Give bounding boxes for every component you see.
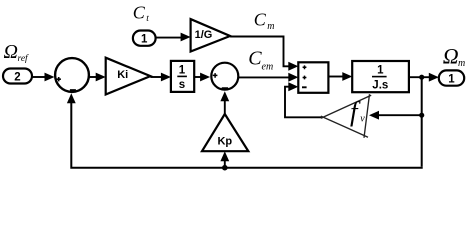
wire sum2 to sum block input2: [239, 76, 289, 78]
svg-text:m: m: [267, 21, 274, 32]
gain 1/G: [191, 19, 231, 51]
wire 1/J.s to outport: [409, 76, 430, 78]
wire fv to sum block input3: [285, 87, 323, 118]
svg-text:C: C: [248, 48, 262, 70]
svg-text:1: 1: [377, 65, 384, 77]
svg-text:t: t: [146, 14, 149, 24]
wire sum1 to Ki: [90, 76, 98, 78]
label Omega_ref: [4, 41, 30, 64]
svg-text:Ω: Ω: [443, 44, 459, 69]
svg-text:Ω: Ω: [4, 41, 18, 63]
svg-text:ref: ref: [18, 53, 30, 64]
svg-text:1: 1: [141, 34, 148, 46]
arrow into sum1 from below: [67, 93, 76, 103]
inport oval 1 (Ct): [133, 31, 156, 46]
wire feedback vertical right: [421, 77, 423, 167]
wire Ct oval to 1/G: [156, 37, 182, 39]
junction dot at Kp branch: [222, 165, 228, 171]
junction dot at fv branch: [419, 113, 424, 118]
wire integrator to sum2: [194, 76, 201, 78]
svg-text:Kp: Kp: [217, 135, 232, 147]
svg-text:m: m: [458, 58, 465, 69]
wire sum block to 1/J.s: [328, 76, 343, 78]
wire oval2 to sum1: [32, 76, 46, 78]
gain fv (flipped, thin stroke): [321, 94, 371, 138]
inport oval 2: [3, 69, 32, 84]
gain Kp: [202, 114, 248, 151]
svg-text:2: 2: [14, 72, 20, 84]
gain Ki: [106, 58, 151, 95]
wire Kp to sum2: [224, 101, 226, 114]
svg-text:1: 1: [448, 73, 455, 85]
outport oval 1: [439, 70, 464, 85]
svg-text:1: 1: [179, 65, 186, 77]
sum junction circle 2: [211, 63, 238, 90]
svg-text:v: v: [360, 114, 365, 125]
svg-text:s: s: [179, 79, 185, 91]
label C_m: [254, 9, 275, 32]
svg-text:C: C: [133, 3, 146, 23]
svg-text:J.s: J.s: [372, 79, 388, 91]
svg-text:em: em: [262, 61, 274, 72]
transfer block 1/J.s: [352, 61, 409, 92]
wire Ki to integrator: [150, 76, 162, 78]
svg-text:Ki: Ki: [117, 69, 128, 81]
wire to fv input: [378, 114, 422, 116]
junction dot at output: [419, 75, 424, 80]
label Omega_m: [443, 44, 465, 69]
wire 1/G to sum block input1: [230, 37, 289, 67]
label C_em: [248, 48, 273, 73]
sum block (rect): [298, 62, 328, 93]
svg-text:C: C: [254, 9, 267, 29]
integrator block 1/s: [171, 61, 194, 92]
wire junction to Kp: [224, 161, 226, 168]
svg-text:1/G: 1/G: [195, 29, 213, 41]
sum junction circle 1: [55, 58, 89, 92]
wire bottom feedback: [71, 103, 421, 168]
label C_t: [133, 3, 150, 25]
